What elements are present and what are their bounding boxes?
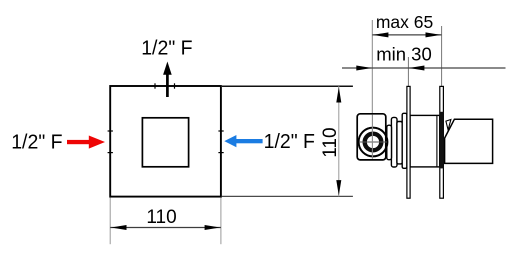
svg-text:1/2" F: 1/2" F — [141, 37, 192, 59]
svg-text:1/2" F: 1/2" F — [264, 131, 315, 153]
svg-text:min 30: min 30 — [376, 43, 432, 64]
svg-text:110: 110 — [320, 127, 341, 157]
svg-text:110: 110 — [146, 207, 176, 228]
svg-text:max 65: max 65 — [376, 12, 433, 32]
svg-text:1/2" F: 1/2" F — [11, 131, 62, 153]
